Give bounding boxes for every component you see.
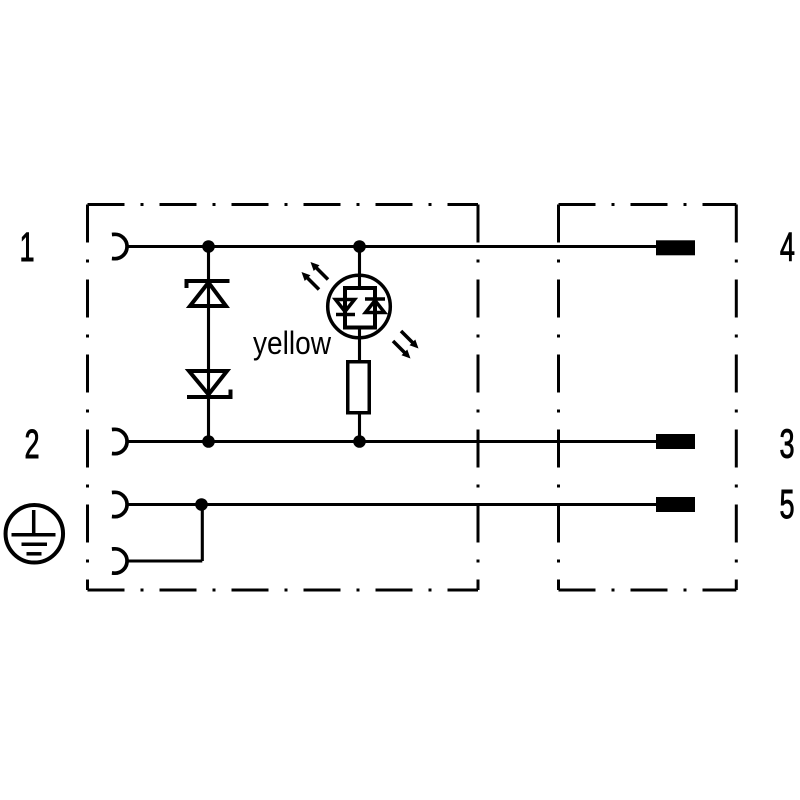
wire pin2 to terminal 3 [127,440,656,443]
junction node wire1/suppressor [202,240,215,253]
protective earth symbol [6,505,64,563]
wire PE lower link vertical [201,505,204,562]
pin label 4 [780,226,795,271]
socket contact PE upper [114,492,127,516]
terminal 4 (black ferrule) [656,240,695,255]
svg-text:1: 1 [19,226,34,271]
socket contact pin 2 [114,429,127,453]
pin label 2 [24,423,39,468]
svg-text:4: 4 [780,226,795,271]
wire PE to terminal 5 [127,503,656,506]
LED right diode (up) [365,299,385,313]
socket contact pin 1 [114,234,127,258]
terminal 5 (black ferrule) [656,497,695,512]
socket contact PE lower [114,549,127,573]
svg-text:yellow: yellow [253,325,332,361]
LED emission arrow upper-left A [311,262,329,280]
LED left diode (down) [336,300,356,315]
pin label 5 [779,483,794,528]
wire pin1 to terminal 4 [127,245,656,248]
wire LED branch middle [358,328,361,361]
wire PE lower link horizontal [127,559,202,562]
resistor R [348,362,370,413]
svg-text:5: 5 [779,483,794,528]
junction node wire1/LED [353,240,366,253]
cable side enclosure (right dash-dot box) [559,205,737,591]
valve connector enclosure (left dash-dot box) [88,205,479,591]
zener diode D2 (lower) [187,371,231,397]
pin label 3 [779,422,794,467]
LED inner box [345,288,375,328]
junction node wire2/suppressor [202,435,215,448]
LED emission arrow lower-right C [401,331,419,349]
wire LED branch upper [358,247,361,289]
LED emission arrow lower-right D [393,341,411,359]
terminal 3 (black ferrule) [656,434,695,449]
svg-text:2: 2 [24,423,39,468]
LED emission arrow upper-left B [302,272,320,290]
zener diode D1 (upper) [187,281,230,306]
wire suppressor branch vertical [207,247,210,442]
pin label 1 [19,226,34,271]
junction node wire2/LED [353,435,366,448]
junction node wire3/PE link [195,498,208,511]
svg-text:3: 3 [779,422,794,467]
wire LED branch lower [358,415,361,442]
LED lamp circle [328,275,391,338]
